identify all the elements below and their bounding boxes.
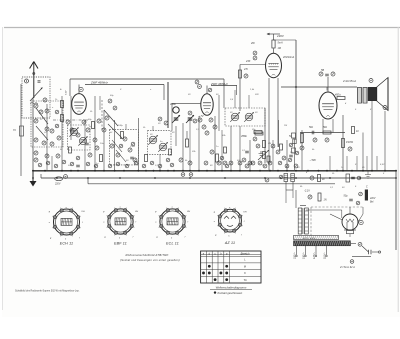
svg-text:ZWF 468kHz: ZWF 468kHz xyxy=(210,82,228,86)
svg-text:(Sockel und Fassungen von unte: (Sockel und Fassungen von unten gesehen) xyxy=(120,258,180,262)
svg-text:TA: TA xyxy=(243,278,246,282)
svg-text:220V: 220V xyxy=(54,184,61,186)
svg-text:27k: 27k xyxy=(243,68,249,71)
svg-text:→50V: →50V xyxy=(309,159,316,162)
svg-text:400Ω: 400Ω xyxy=(335,94,341,97)
svg-text:Wellenschalterdiagramm: Wellenschalterdiagramm xyxy=(216,286,247,290)
svg-text:100p: 100p xyxy=(118,125,124,127)
svg-text:1N: 1N xyxy=(324,199,327,202)
svg-text:-2,1V: -2,1V xyxy=(304,190,310,193)
svg-text:230V: 230V xyxy=(276,34,285,38)
svg-text:AZ 11: AZ 11 xyxy=(224,241,235,245)
svg-text:23F: 23F xyxy=(245,60,251,63)
svg-text:2×1F/15mA: 2×1F/15mA xyxy=(342,80,356,83)
svg-text:1M: 1M xyxy=(284,125,287,127)
svg-text:456k: 456k xyxy=(241,134,247,138)
svg-text:Bereich: Bereich xyxy=(241,252,250,256)
svg-text:20V/10mA: 20V/10mA xyxy=(282,56,295,59)
svg-text:50n: 50n xyxy=(309,126,314,129)
svg-text:15/2W: 15/2W xyxy=(346,141,354,144)
svg-text:25p: 25p xyxy=(251,129,256,131)
svg-text:KH: KH xyxy=(187,211,190,213)
svg-text:KH: KH xyxy=(82,211,85,213)
svg-text:C: C xyxy=(366,186,368,189)
svg-text:5mA: 5mA xyxy=(278,42,283,45)
svg-text:ECL 11: ECL 11 xyxy=(166,242,179,246)
svg-text:KH: KH xyxy=(243,211,246,213)
svg-text:50µ: 50µ xyxy=(344,195,349,198)
svg-text:220: 220 xyxy=(254,94,259,96)
svg-text:125V~: 125V~ xyxy=(313,251,316,259)
svg-text:150V~: 150V~ xyxy=(303,251,306,259)
svg-text:437V~ 400V~: 437V~ 400V~ xyxy=(303,237,317,240)
svg-text:ECH 11: ECH 11 xyxy=(60,242,74,246)
svg-text:K: K xyxy=(244,271,246,275)
svg-text:220V: 220V xyxy=(369,198,376,200)
svg-text:EBF 11: EBF 11 xyxy=(114,242,127,246)
svg-text:Schaltbild des Radiowerk-Super: Schaltbild des Radiowerk-Supers 502 W mi… xyxy=(15,290,80,293)
svg-text:5B: 5B xyxy=(321,69,324,72)
svg-text:Bel.: Bel. xyxy=(370,202,374,204)
svg-text:Kontakt geschlossen: Kontakt geschlossen xyxy=(218,291,243,295)
svg-text:50n: 50n xyxy=(323,126,328,129)
svg-text:6,3V: 6,3V xyxy=(66,90,68,95)
svg-text:220V~: 220V~ xyxy=(294,251,297,260)
svg-text:2W: 2W xyxy=(250,42,255,45)
svg-text:110V~: 110V~ xyxy=(324,252,327,259)
svg-text:2M: 2M xyxy=(267,143,271,145)
svg-text:0,5M: 0,5M xyxy=(130,146,135,148)
svg-text:6,3V: 6,3V xyxy=(380,164,385,166)
svg-text:456k: 456k xyxy=(170,102,176,106)
svg-text:ZWF 468kHz: ZWF 468kHz xyxy=(90,80,108,84)
svg-text:Tn: Tn xyxy=(13,128,17,132)
svg-text:2× 5mm 62 A: 2× 5mm 62 A xyxy=(339,266,355,269)
svg-text:+7V: +7V xyxy=(199,115,204,118)
svg-text:KH: KH xyxy=(135,211,138,213)
svg-text:Röhrenanschlußbild ATB/TRF: Röhrenanschlußbild ATB/TRF xyxy=(126,253,169,257)
